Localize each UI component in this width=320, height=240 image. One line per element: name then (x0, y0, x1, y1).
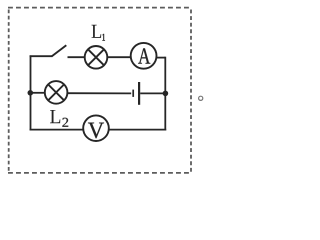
wire: left dot to lamp L2 (31, 92, 46, 94)
wire: switch left lead (30, 55, 52, 57)
label L2 subscript 2 (62, 118, 68, 127)
wire: switch right lead (68, 56, 85, 58)
dashed frame right (190, 10, 192, 173)
wire: left vertical (30, 55, 32, 130)
dashed frame bottom (8, 172, 192, 174)
terminal circle (right edge) (199, 96, 203, 100)
label L1 (92, 25, 102, 38)
dashed frame top (8, 7, 192, 9)
switch S blade (52, 45, 67, 56)
voltmeter letter V (88, 123, 104, 139)
lamp L2 (45, 81, 68, 104)
battery short plate (negative) (132, 90, 134, 97)
ammeter U-A (131, 43, 157, 69)
wire: battery to right dot (140, 92, 165, 94)
battery long plate (positive) (138, 82, 140, 105)
node: left junction dot (28, 90, 34, 96)
label L2 (50, 110, 60, 123)
lamp L1 (85, 46, 108, 69)
wire: bottom right horizontal (109, 129, 167, 131)
wire: L2 to battery (67, 92, 131, 94)
dashed frame left (8, 10, 10, 173)
voltmeter U-V (83, 115, 109, 141)
wire: right vertical upper (164, 57, 166, 94)
ammeter letter A (138, 48, 150, 63)
node: right junction dot (163, 91, 169, 97)
wire: right vertical lower (164, 93, 166, 130)
wire: bottom left horizontal (30, 129, 84, 131)
wire: L1 to ammeter (107, 56, 131, 58)
wire: ammeter to top-right corner (156, 57, 165, 59)
label L1 subscript 1 (102, 34, 105, 41)
